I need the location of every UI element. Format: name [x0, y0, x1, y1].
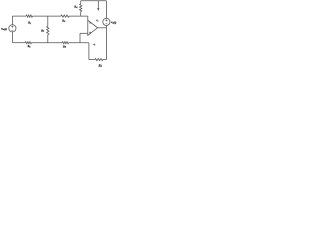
svg-text:vin(t): vin(t) — [1, 28, 7, 31]
svg-text:vo: vo — [96, 19, 98, 22]
svg-text:RL: RL — [98, 63, 102, 67]
svg-text:vo(t): vo(t) — [111, 20, 116, 24]
